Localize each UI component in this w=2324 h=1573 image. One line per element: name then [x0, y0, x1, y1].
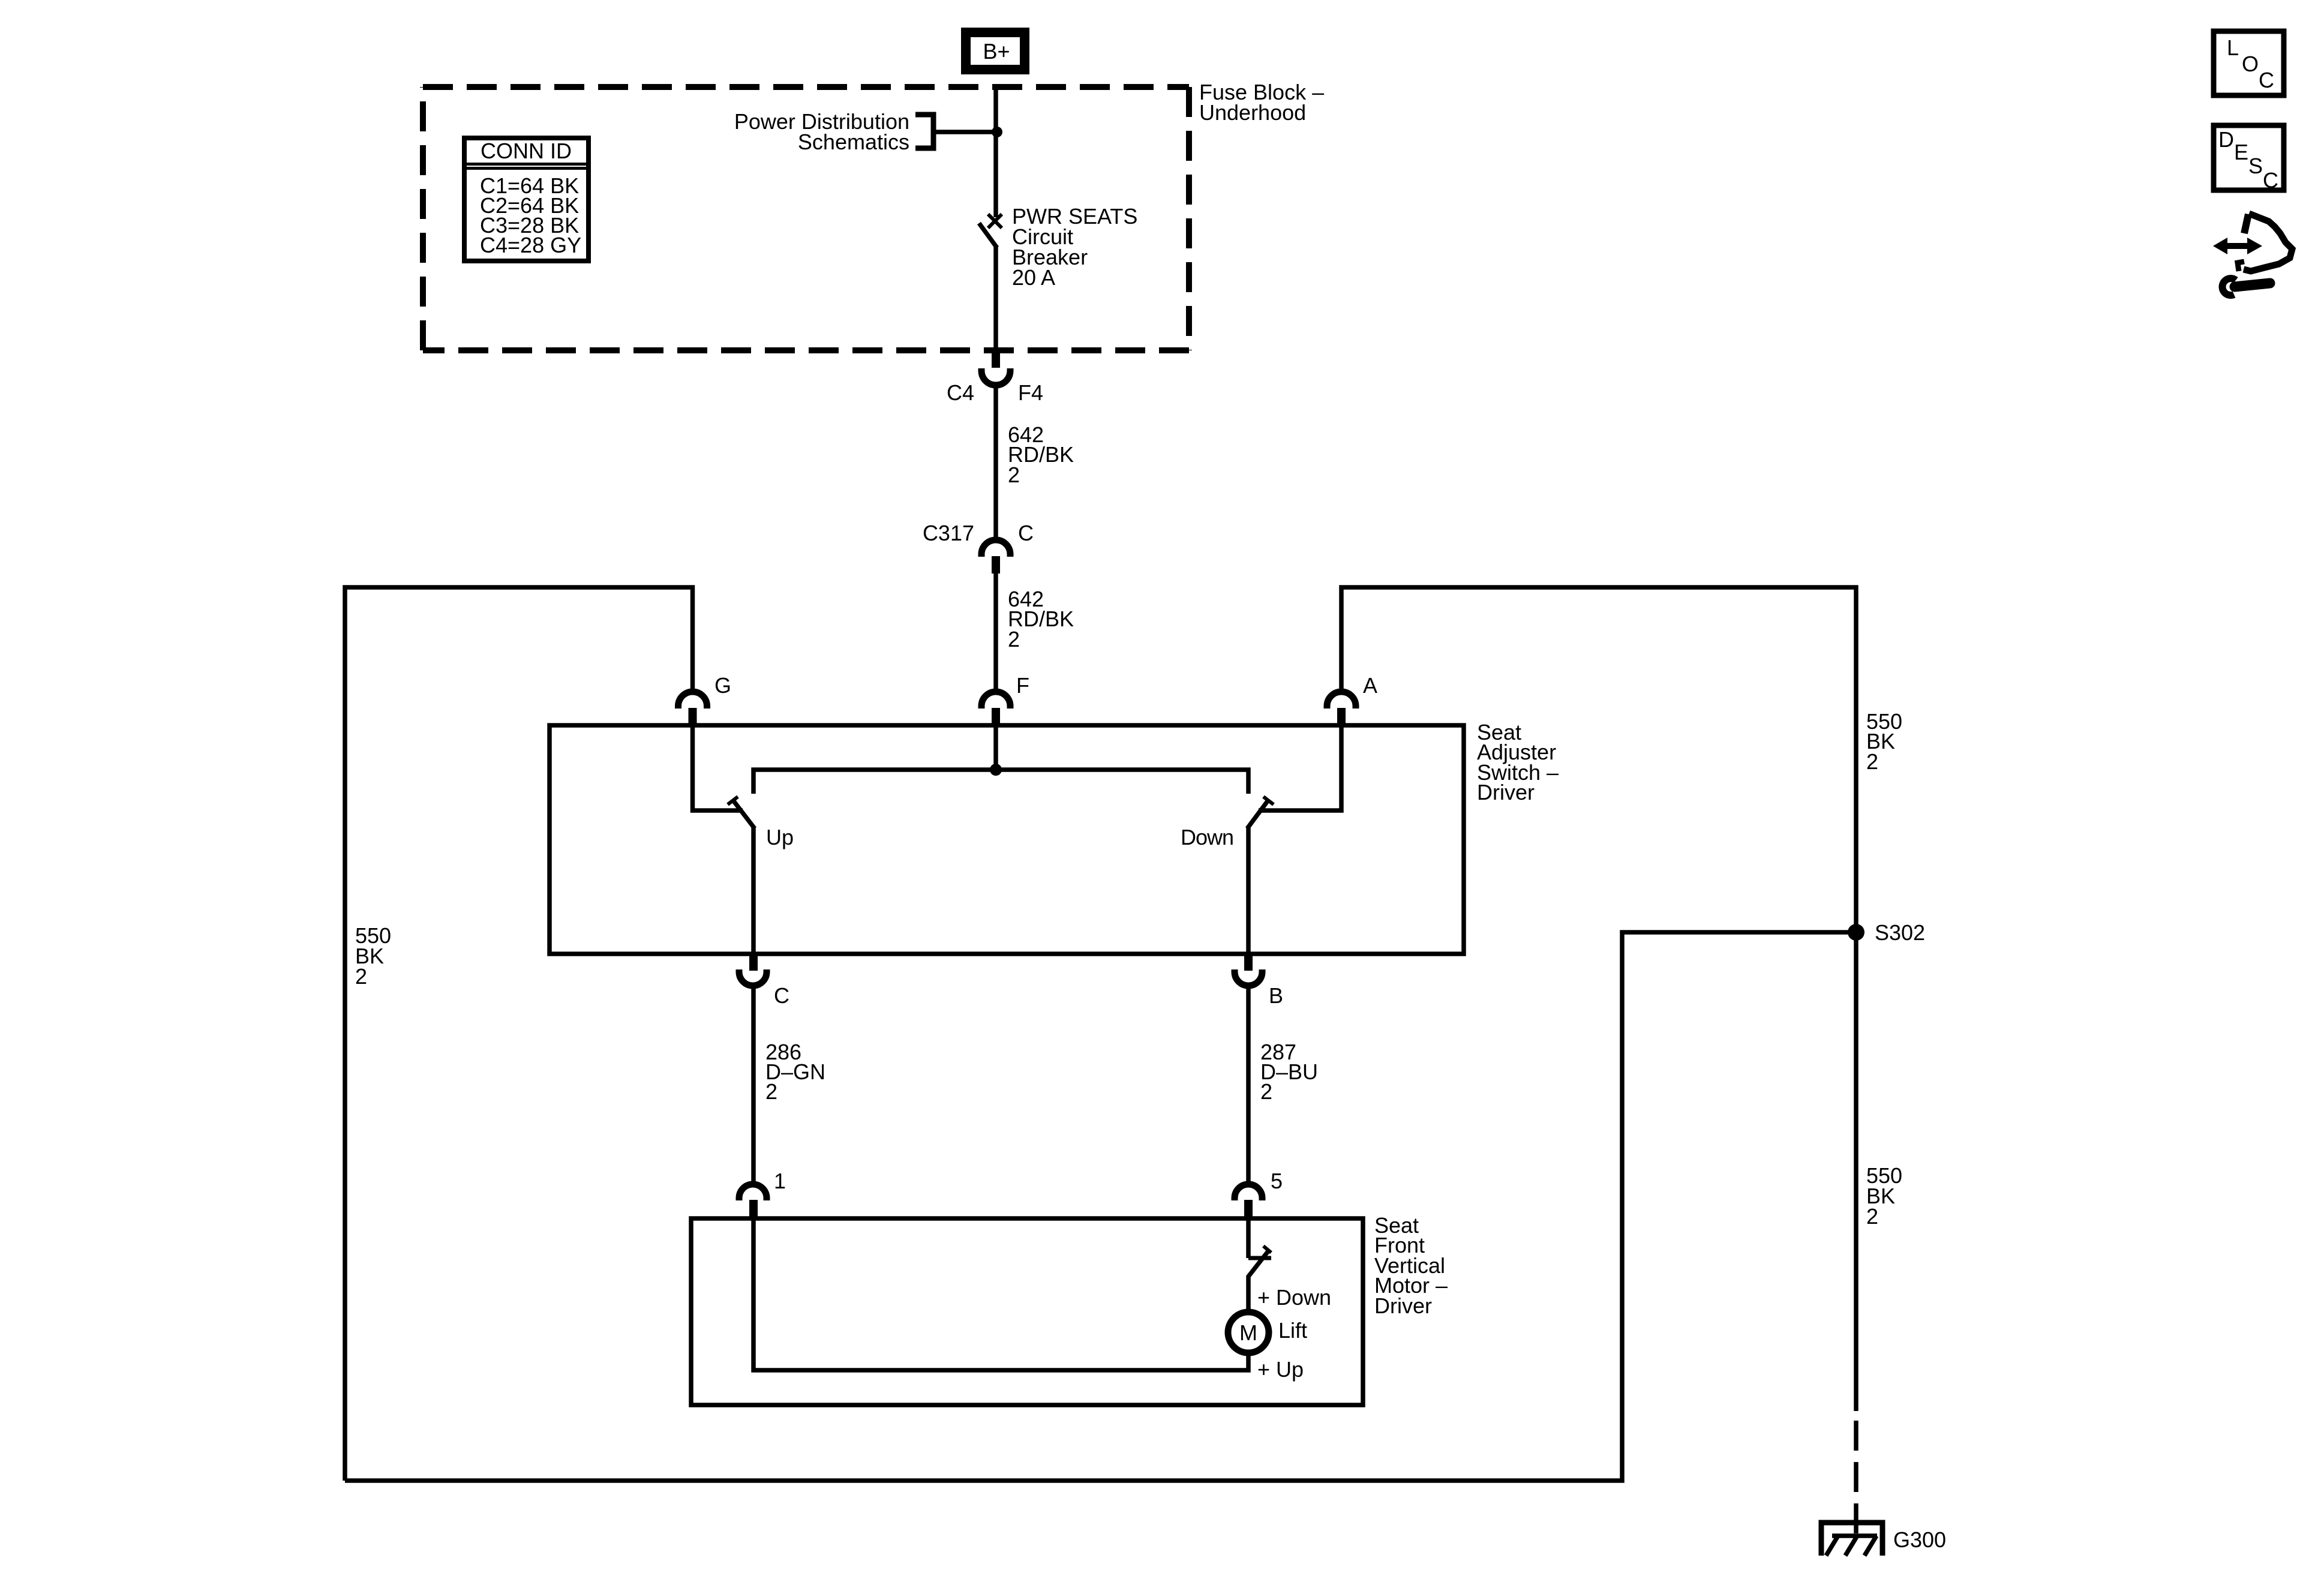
- Up switch: [728, 797, 755, 954]
- motor M: [1228, 1312, 1269, 1353]
- circuit breaker PWR SEATS 20 A: [979, 214, 1002, 350]
- label 642 RD/BK 2 (upper): [1008, 422, 1074, 487]
- label 286 D-GN 2: [765, 1040, 825, 1104]
- bracket for power distribution reference: [915, 115, 933, 148]
- svg-text:Lift: Lift: [1278, 1318, 1307, 1343]
- LOC box: [2214, 31, 2284, 95]
- wire 642 RD/BK segment 2: [993, 574, 998, 692]
- terminal 1: [739, 1184, 767, 1217]
- svg-text:C: C: [2259, 68, 2274, 92]
- wire: bracket to junction: [933, 130, 997, 134]
- svg-text:O: O: [2242, 52, 2259, 76]
- svg-text:5: 5: [1271, 1169, 1283, 1193]
- terminal F: [981, 692, 1010, 724]
- svg-text:E: E: [2234, 140, 2248, 164]
- label 550 BK 2 (right lower): [1866, 1163, 1902, 1229]
- wire: right loop (A branch) down to ground: [1341, 587, 1856, 1411]
- terminal A: [1327, 692, 1356, 724]
- svg-text:L: L: [2227, 35, 2239, 60]
- seat front vertical motor box: [691, 1218, 1363, 1405]
- splice S302: [1848, 924, 1864, 941]
- svg-text:G: G: [714, 673, 731, 698]
- thermal protection switch: [1248, 1246, 1271, 1313]
- connector C317 C: [981, 540, 1010, 574]
- svg-text:2: 2: [1260, 1079, 1272, 1104]
- svg-text:B: B: [1269, 983, 1283, 1008]
- terminal G: [678, 692, 707, 724]
- svg-text:G300: G300: [1893, 1527, 1946, 1552]
- svg-text:+ Down: + Down: [1257, 1285, 1331, 1310]
- svg-text:A: A: [1363, 673, 1377, 698]
- dashed wire to G300: [1854, 1421, 1858, 1533]
- svg-text:S: S: [2248, 154, 2263, 178]
- svg-text:B+: B+: [983, 39, 1010, 64]
- svg-text:2: 2: [1008, 627, 1020, 652]
- svg-text:CONN ID: CONN ID: [481, 139, 572, 163]
- label 642 RD/BK 2 (lower): [1008, 587, 1074, 652]
- svg-text:+ Up: + Up: [1257, 1357, 1304, 1382]
- wire: G internal: [693, 725, 743, 810]
- label PWR SEATS Circuit Breaker 20 A: [1012, 204, 1137, 290]
- wire: B+ down to breaker: [993, 88, 998, 217]
- svg-text:Schematics: Schematics: [798, 130, 909, 154]
- svg-text:1: 1: [774, 1169, 786, 1193]
- svg-text:C4=28 GY: C4=28 GY: [480, 233, 581, 257]
- svg-text:F: F: [1016, 673, 1029, 698]
- junction in switch: [990, 764, 1002, 776]
- connector C4/F4: [981, 350, 1010, 385]
- svg-text:F4: F4: [1018, 380, 1043, 405]
- svg-text:Underhood: Underhood: [1199, 100, 1306, 125]
- svg-text:C: C: [774, 983, 789, 1008]
- svg-text:C4: C4: [947, 380, 974, 405]
- svg-text:2: 2: [1866, 1204, 1878, 1229]
- label Power Distribution Schematics: [734, 109, 909, 154]
- fuse block - underhood dashed box: [423, 87, 1189, 350]
- svg-text:C317: C317: [923, 521, 974, 545]
- svg-text:C: C: [1018, 521, 1034, 545]
- svg-text:2: 2: [1008, 463, 1020, 487]
- svg-text:2: 2: [355, 964, 367, 989]
- svg-text:Up: Up: [766, 825, 794, 849]
- power symbol B+: [966, 32, 1025, 70]
- svg-text:Driver: Driver: [1374, 1293, 1432, 1318]
- terminal B: [1235, 954, 1262, 986]
- wire 287 D-BU: [1246, 986, 1251, 1185]
- wire 286 D-GN: [751, 986, 756, 1185]
- svg-text:M: M: [1239, 1320, 1257, 1345]
- label Seat Front Vertical Motor - Driver: [1374, 1213, 1448, 1318]
- label 550 BK 2 (right upper): [1866, 709, 1902, 774]
- wire: F feed into switch: [993, 725, 998, 770]
- DESC box: [2214, 125, 2284, 193]
- svg-text:S302: S302: [1875, 920, 1925, 945]
- svg-text:2: 2: [1866, 749, 1878, 774]
- svg-text:C: C: [2263, 168, 2278, 193]
- seat adjuster switch box: [550, 725, 1464, 954]
- wire 642 RD/BK segment 1: [993, 385, 998, 541]
- Down switch: [1247, 797, 1274, 954]
- label 287 D-BU 2: [1260, 1040, 1318, 1104]
- svg-text:Driver: Driver: [1477, 780, 1535, 804]
- wire: internal feed bus: [753, 770, 1248, 794]
- svg-text:D: D: [2218, 127, 2234, 152]
- svg-text:Down: Down: [1181, 825, 1233, 849]
- wire: left loop top (G branch): [345, 587, 693, 1481]
- wire: pin 5 into motor: [1246, 1218, 1251, 1258]
- junction: power distribution tap: [992, 127, 1002, 137]
- svg-text:20 A: 20 A: [1012, 265, 1055, 290]
- label Seat Adjuster Switch - Driver: [1477, 720, 1559, 804]
- svg-text:2: 2: [765, 1079, 777, 1104]
- label Fuse Block - Underhood: [1199, 80, 1324, 125]
- terminal 5: [1235, 1184, 1262, 1217]
- wire: motor loop to pin 1: [753, 1217, 1248, 1370]
- terminal C: [739, 954, 767, 986]
- ground G300: [1821, 1523, 1882, 1556]
- wire: bottom run to S302 riser: [345, 932, 1856, 1481]
- CONN ID table: [464, 138, 588, 261]
- label 550 BK 2 (left): [355, 923, 391, 989]
- adjust/service icon: [2213, 214, 2292, 295]
- wire: A internal: [1259, 725, 1341, 810]
